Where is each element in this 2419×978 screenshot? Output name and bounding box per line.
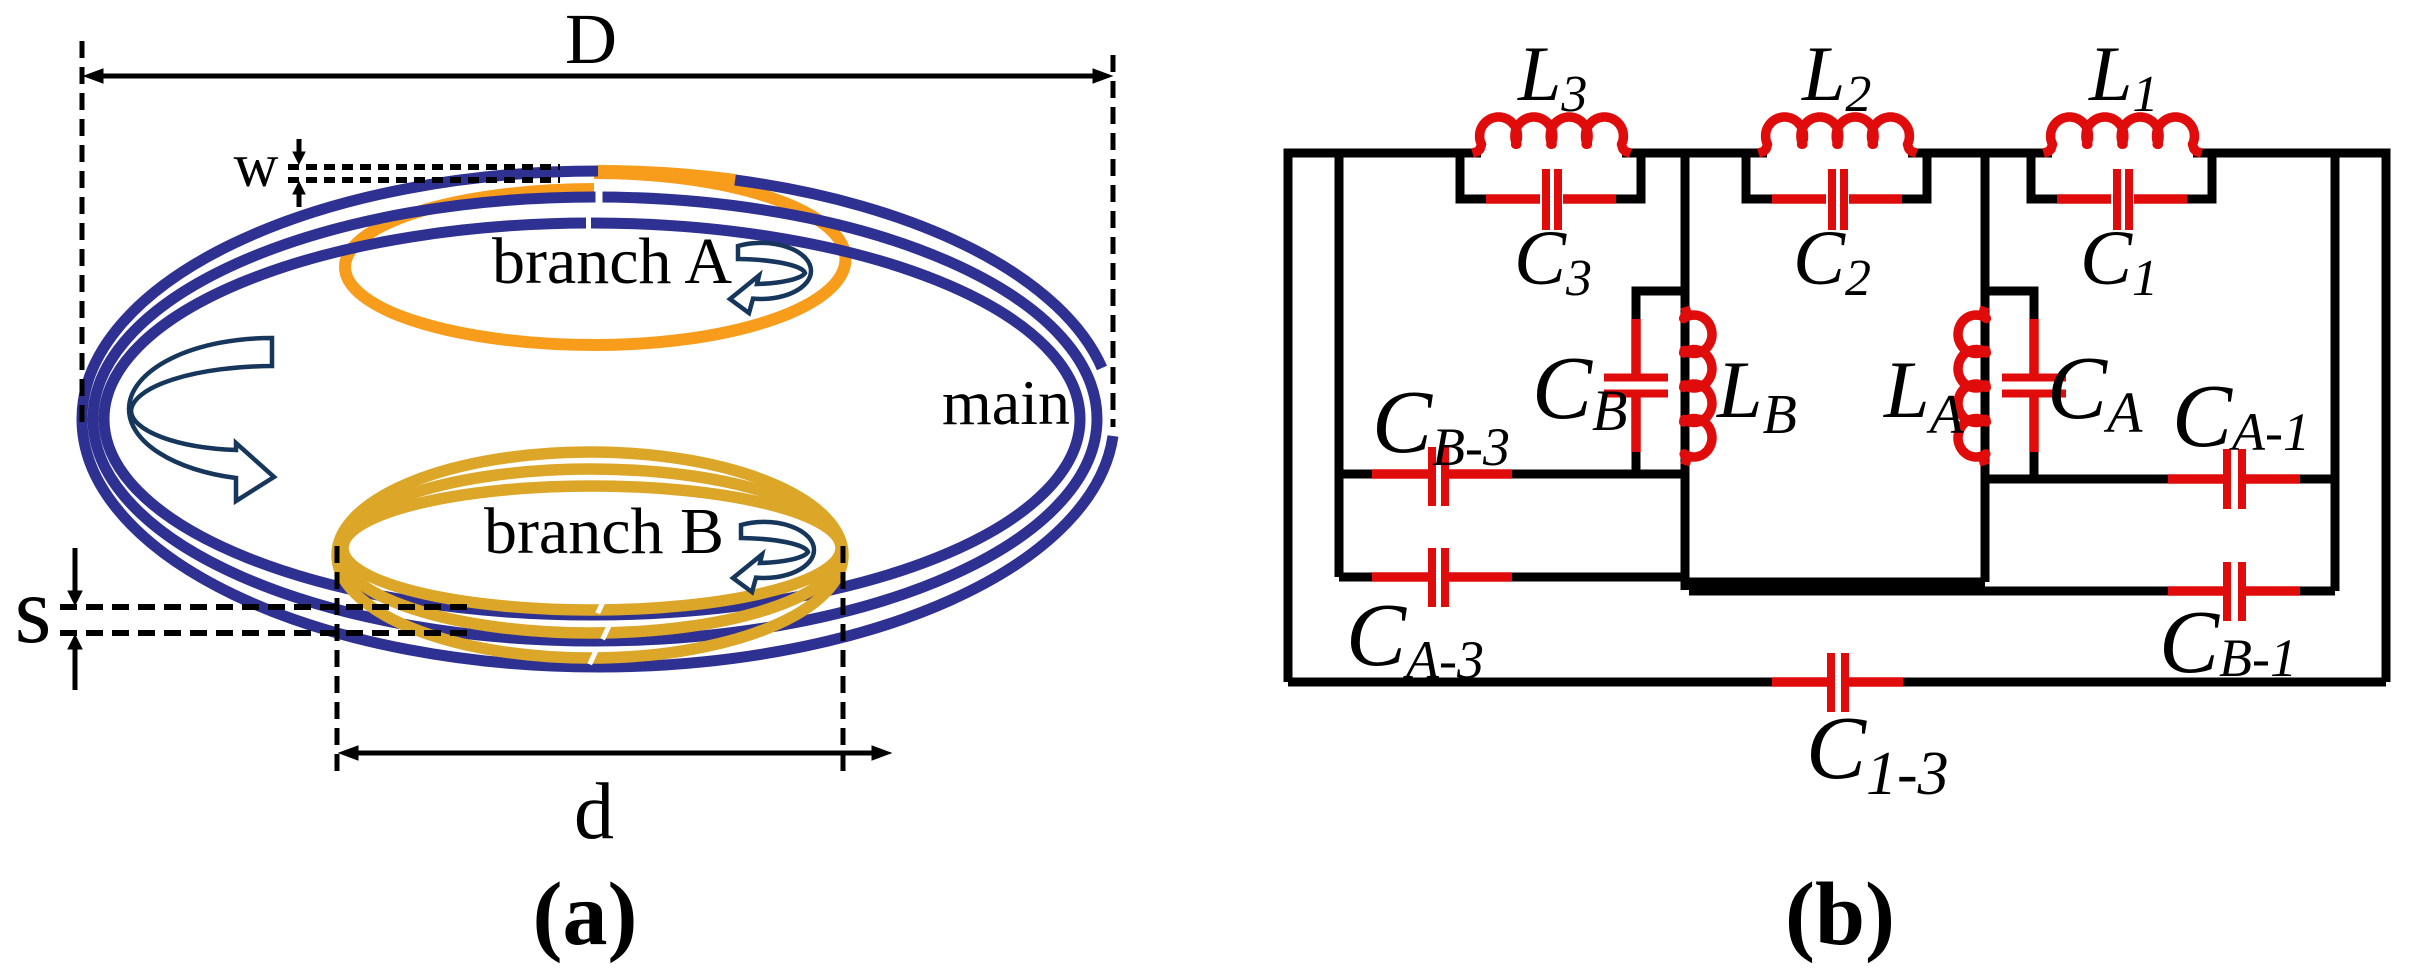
svg-text:branch A: branch A [492,225,732,298]
svg-text:(b): (b) [1785,865,1895,964]
svg-text:branch B: branch B [484,495,724,568]
svg-text:main: main [942,367,1070,438]
svg-text:w: w [234,132,279,200]
svg-text:s: s [15,557,52,663]
svg-text:D: D [565,0,617,79]
svg-text:(a): (a) [533,865,638,964]
svg-text:d: d [574,768,614,856]
